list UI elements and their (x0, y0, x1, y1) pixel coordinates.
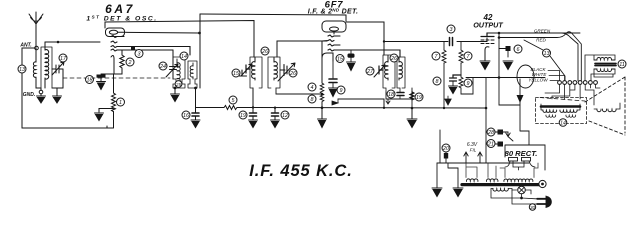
wire IF1 secondary top to 6F7 region (277, 41, 327, 57)
wire rect filament (513, 161, 524, 170)
label 30 (529, 204, 535, 210)
label 13 (18, 65, 26, 73)
svg-text:26: 26 (261, 49, 268, 55)
capacitor C8 tone (450, 75, 462, 86)
voice coil (594, 103, 620, 112)
tube 6A7 envelope (106, 28, 125, 37)
label 6 (514, 45, 522, 53)
IF transformer 1 secondary (274, 58, 277, 81)
capacitor C28 filter (486, 130, 503, 135)
wire IF1 right leg down (275, 88, 277, 94)
svg-text:YELLOW: YELLOW (528, 78, 548, 83)
grids 6F7 (322, 35, 400, 57)
label 24 (159, 62, 167, 70)
ground cathode 42 (480, 57, 490, 70)
label 25 (175, 81, 182, 88)
node junction bias (485, 107, 488, 110)
speaker terminal strip (558, 81, 598, 85)
output transformer T2 bottom winding (594, 69, 615, 72)
svg-text:GREEN: GREEN (534, 29, 551, 34)
IF transformer 2 secondary (399, 58, 402, 81)
resistor R19 det load (410, 92, 414, 100)
label 20 (442, 144, 450, 152)
trimmer capacitor 17 (52, 62, 64, 75)
volume control 10 (332, 99, 384, 107)
ground osc coil (171, 94, 180, 102)
wire 42 plate lead green (487, 32, 580, 34)
pilot lamp (518, 186, 531, 194)
svg-text:8: 8 (311, 97, 314, 103)
label 12 (281, 111, 289, 119)
capacitor C21 filter2 (486, 142, 503, 147)
wire screen tap (276, 93, 322, 95)
node junction osc c (194, 87, 197, 90)
label 9a (464, 79, 472, 87)
node junction plate (198, 32, 201, 35)
IF1 secondary form (268, 57, 280, 88)
power transformer T3 winding a (466, 179, 478, 182)
node junction cord (520, 197, 523, 200)
arrow bus tap (445, 96, 451, 105)
power transformer T3 primary (491, 189, 520, 199)
transformer T3 secondary leads (466, 163, 538, 178)
IF1 trimmer left (241, 64, 252, 76)
wire tuning cap to ground rail (62, 69, 64, 88)
svg-text:3: 3 (450, 27, 453, 33)
label 4 (308, 83, 316, 91)
filament arrows 6.3V (464, 152, 482, 163)
resistor R1 AVC (107, 74, 116, 128)
capacitor C19 (250, 113, 257, 120)
node junction g (321, 106, 324, 109)
AC plug (537, 196, 552, 208)
node ANT terminal (35, 46, 39, 50)
wire coupling line (384, 38, 487, 42)
IF2 trimmer (374, 65, 385, 77)
label 18 (387, 90, 395, 98)
svg-text:17: 17 (60, 56, 67, 62)
svg-text:28: 28 (487, 130, 494, 136)
capacitor C18 detector (397, 92, 404, 99)
svg-text:21: 21 (487, 142, 494, 148)
capacitor C12 (272, 107, 279, 120)
svg-text:24: 24 (159, 64, 166, 70)
wire B+ feed down (520, 79, 529, 145)
rectifier box outline (505, 145, 545, 170)
field coil winding c (546, 115, 556, 117)
resistor R4 (320, 83, 324, 93)
svg-text:GND.: GND. (23, 92, 36, 98)
arrow B+ direction (517, 95, 524, 103)
label 7a (432, 52, 440, 60)
label 17 (59, 54, 67, 62)
resistor R2 cathode (114, 50, 124, 74)
capacitor cathode bypass (97, 75, 106, 82)
svg-text:FIL: FIL (470, 148, 477, 153)
node bus junctions (252, 106, 254, 108)
svg-text:I.F. & 2ND DET.: I.F. & 2ND DET. (308, 8, 359, 16)
svg-text:18: 18 (87, 78, 93, 84)
wire bias link (461, 78, 473, 94)
label 26c (390, 54, 398, 62)
svg-text:15: 15 (337, 57, 344, 63)
wire AVC bus (253, 107, 486, 110)
field coil winding d (566, 115, 576, 117)
IF transformer 2 primary (385, 56, 388, 81)
svg-text:16: 16 (183, 113, 189, 119)
svg-text:3: 3 (138, 52, 141, 58)
wire osc top bus (200, 14, 346, 21)
field coil leads (541, 104, 580, 110)
wire output bus (466, 77, 545, 79)
wire osc coil ground (174, 88, 176, 94)
label 14b (559, 119, 567, 127)
wire 6A7 top-cap (105, 21, 254, 58)
label 15 (232, 69, 240, 77)
svg-text:4: 4 (311, 85, 314, 91)
label 3 (135, 50, 143, 58)
svg-text:ANT.: ANT. (19, 43, 31, 49)
capacitor 15 (240, 70, 247, 76)
svg-text:6: 6 (517, 47, 520, 53)
capacitor C3 coupling (450, 38, 453, 46)
svg-text:12: 12 (282, 113, 288, 119)
power transformer T3 winding b (486, 179, 498, 182)
ground tone cap (449, 86, 458, 94)
arrow pot wiper (386, 100, 390, 105)
resistor R7a (442, 42, 446, 109)
label 18b (86, 76, 94, 84)
IF1 primary form (250, 57, 262, 92)
capacitor C16 osc (192, 113, 199, 120)
svg-text:30: 30 (530, 205, 536, 210)
svg-text:1: 1 (119, 100, 122, 106)
cathode 6F7 (322, 53, 333, 62)
ground cathode 6F7 (329, 88, 338, 97)
label 11 (618, 60, 626, 68)
label 3b (447, 25, 455, 33)
wire chassis bottom return (22, 126, 107, 128)
wire 6F7 plate (346, 22, 384, 55)
label 8a (433, 77, 441, 85)
field coil winding a (543, 110, 557, 112)
svg-text:25: 25 (175, 82, 182, 88)
svg-text:9: 9 (467, 81, 470, 87)
IF1 trimmer right (278, 63, 295, 81)
wire 6A7 plate to osc (125, 31, 200, 34)
wire osc coil bottom to bus (195, 88, 197, 113)
tube 42 grids (481, 40, 494, 44)
wire R1 tap ground (99, 109, 114, 113)
ground plate blob (347, 62, 356, 71)
label 28 (487, 128, 495, 136)
svg-text:WHITE: WHITE (532, 72, 548, 77)
capacitor C20 (444, 152, 448, 163)
wire CT drop (448, 163, 458, 188)
capacitor C15 plate blob (348, 50, 355, 62)
label 21b (487, 140, 495, 148)
label 29 (539, 180, 546, 187)
node junction red (498, 36, 501, 39)
ground cathode cap (97, 82, 106, 90)
svg-text:27: 27 (366, 69, 374, 75)
field coil dashed housing (536, 98, 587, 124)
ground C16 (191, 120, 200, 128)
rectifier plate b (522, 158, 536, 168)
resistor R8 (320, 94, 324, 102)
wire cord (512, 190, 536, 204)
svg-text:1ST DET & OSC.: 1ST DET & OSC. (86, 15, 157, 23)
resistor R5 series bus (196, 106, 254, 110)
label 16 (182, 111, 190, 119)
power transformer T3 winding c (504, 179, 533, 182)
wire bias rail down (485, 78, 487, 164)
label 19 (239, 111, 247, 119)
IF transformer 1 primary (252, 58, 255, 81)
svg-text:19: 19 (240, 113, 246, 119)
svg-text:26: 26 (390, 56, 397, 62)
node junction c (383, 40, 385, 42)
grids 6A7 (111, 36, 190, 56)
label 1 (117, 98, 125, 106)
resistor R9 bias (459, 77, 463, 88)
IF2 secondary form (397, 57, 405, 92)
svg-text:2: 2 (128, 60, 132, 66)
coil form outline (41, 47, 52, 88)
wire green lead (487, 33, 578, 81)
rectifier plate a (505, 158, 518, 168)
svg-text:11: 11 (619, 62, 625, 68)
label 9c (337, 86, 345, 94)
node junction sec top (57, 41, 60, 44)
label 15b (336, 55, 344, 63)
capacitor C9 cathode bypass (329, 61, 337, 88)
svg-text:I.F. 455 K.C.: I.F. 455 K.C. (249, 162, 352, 180)
ground HV left (432, 188, 442, 197)
node junction det (411, 107, 414, 110)
svg-text:20: 20 (442, 146, 449, 152)
oscillator coil form (173, 57, 197, 88)
ground R1 tap (95, 113, 104, 121)
label 8 (308, 95, 316, 103)
speaker cone dashed (585, 77, 625, 135)
label 2 (126, 58, 134, 66)
antenna (29, 12, 43, 47)
cathode 6A7 (101, 55, 114, 74)
svg-text:18: 18 (388, 92, 394, 98)
node GND terminal (39, 90, 43, 94)
oscillator tuning capacitor 24 (166, 50, 178, 79)
label 27 (366, 67, 374, 75)
ground CT (453, 188, 463, 197)
svg-text:80 RECT.: 80 RECT. (505, 149, 538, 158)
node junction (131, 47, 135, 51)
label 26a (261, 47, 269, 55)
label 13b (543, 49, 551, 57)
resistor R7b grid leak (459, 42, 463, 78)
svg-text:6A7: 6A7 (105, 2, 135, 16)
tube 42 plate (481, 33, 494, 37)
label 19b (415, 93, 423, 101)
wire dashed chassis (540, 98, 585, 102)
label 7b (464, 52, 472, 60)
dashed gang line (63, 77, 170, 79)
svg-text:13: 13 (19, 67, 25, 73)
ground C19 (249, 120, 258, 128)
output transformer T2 core (595, 64, 616, 66)
svg-text:14: 14 (181, 54, 187, 60)
antenna coil T1 secondary (45, 42, 49, 88)
wire osc vertical (199, 14, 201, 88)
node junction s42 (498, 32, 501, 35)
ground tuning (53, 96, 62, 103)
cathode 42 (485, 47, 489, 57)
ground C12 (271, 120, 280, 128)
wire heater bus (437, 162, 529, 164)
label 5 (229, 96, 237, 104)
ground detector (407, 108, 417, 128)
svg-text:8: 8 (436, 79, 439, 85)
wire screen 42 (499, 33, 520, 105)
wire secondary bottom to ground (52, 88, 63, 96)
power transformer T3 core (462, 183, 539, 186)
ground ant coil (37, 94, 46, 103)
field coil winding b (560, 110, 577, 112)
oscillator coil L2 left winding (177, 59, 180, 86)
arrow filter tap (503, 132, 513, 141)
ground C6 (503, 61, 513, 70)
svg-text:26: 26 (289, 71, 296, 77)
capacitor C6 plate bypass (499, 46, 511, 57)
speaker plug circle (517, 65, 534, 88)
wire terminal drops (545, 84, 600, 105)
wire grid line from ant coil (45, 41, 100, 43)
wire heater riser (439, 130, 441, 163)
wire detector load (386, 88, 412, 108)
svg-text:13: 13 (544, 51, 550, 57)
wire field lead diagonal (524, 40, 565, 80)
antenna coil T1 primary (33, 48, 41, 88)
svg-text:9: 9 (340, 88, 343, 94)
wire red lead (499, 32, 581, 81)
wire ANT lead-in (22, 48, 35, 128)
IF2 primary form (383, 55, 395, 92)
tube 6F7 envelope (322, 21, 346, 34)
wire label leads (548, 71, 565, 81)
node junction osc gnd (174, 87, 177, 90)
svg-text:14: 14 (560, 121, 566, 127)
oscillator coil L2 right winding (190, 63, 193, 79)
label 14 (180, 52, 188, 60)
wire HV left drop (436, 163, 438, 188)
output transformer T2 top winding (594, 57, 615, 60)
svg-text:15: 15 (233, 71, 240, 77)
svg-text:RED: RED (536, 38, 546, 43)
svg-text:OUTPUT: OUTPUT (473, 21, 503, 30)
output transformer outline (585, 55, 615, 81)
wire IF1 legs down (252, 88, 254, 113)
svg-text:19: 19 (416, 95, 422, 101)
ground 6F7 grid return (318, 119, 327, 128)
label 26b (289, 69, 297, 77)
wire 6F7 grid return (321, 41, 323, 119)
field coil core (541, 105, 580, 108)
